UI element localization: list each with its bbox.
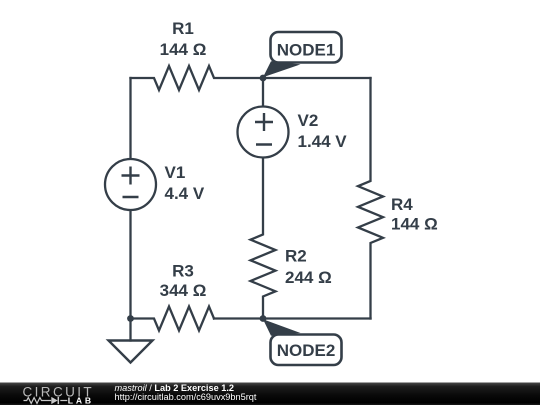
svg-text:http://circuitlab.com/c69uvx9b: http://circuitlab.com/c69uvx9bn5rqt bbox=[115, 392, 257, 402]
svg-text:R3: R3 bbox=[172, 262, 194, 281]
svg-text:1.44 V: 1.44 V bbox=[298, 132, 348, 151]
svg-text:NODE1: NODE1 bbox=[277, 41, 336, 60]
svg-text:LAB: LAB bbox=[68, 396, 94, 405]
svg-text:144 Ω: 144 Ω bbox=[160, 40, 207, 59]
svg-text:344 Ω: 344 Ω bbox=[160, 281, 207, 300]
svg-text:V2: V2 bbox=[298, 111, 319, 130]
svg-text:V1: V1 bbox=[165, 163, 186, 182]
svg-text:R1: R1 bbox=[172, 19, 194, 38]
svg-text:R4: R4 bbox=[391, 195, 413, 214]
svg-text:4.4 V: 4.4 V bbox=[165, 184, 205, 203]
svg-text:144 Ω: 144 Ω bbox=[391, 215, 438, 234]
svg-text:244 Ω: 244 Ω bbox=[285, 268, 332, 287]
svg-text:NODE2: NODE2 bbox=[277, 341, 336, 360]
svg-text:R2: R2 bbox=[285, 247, 307, 266]
